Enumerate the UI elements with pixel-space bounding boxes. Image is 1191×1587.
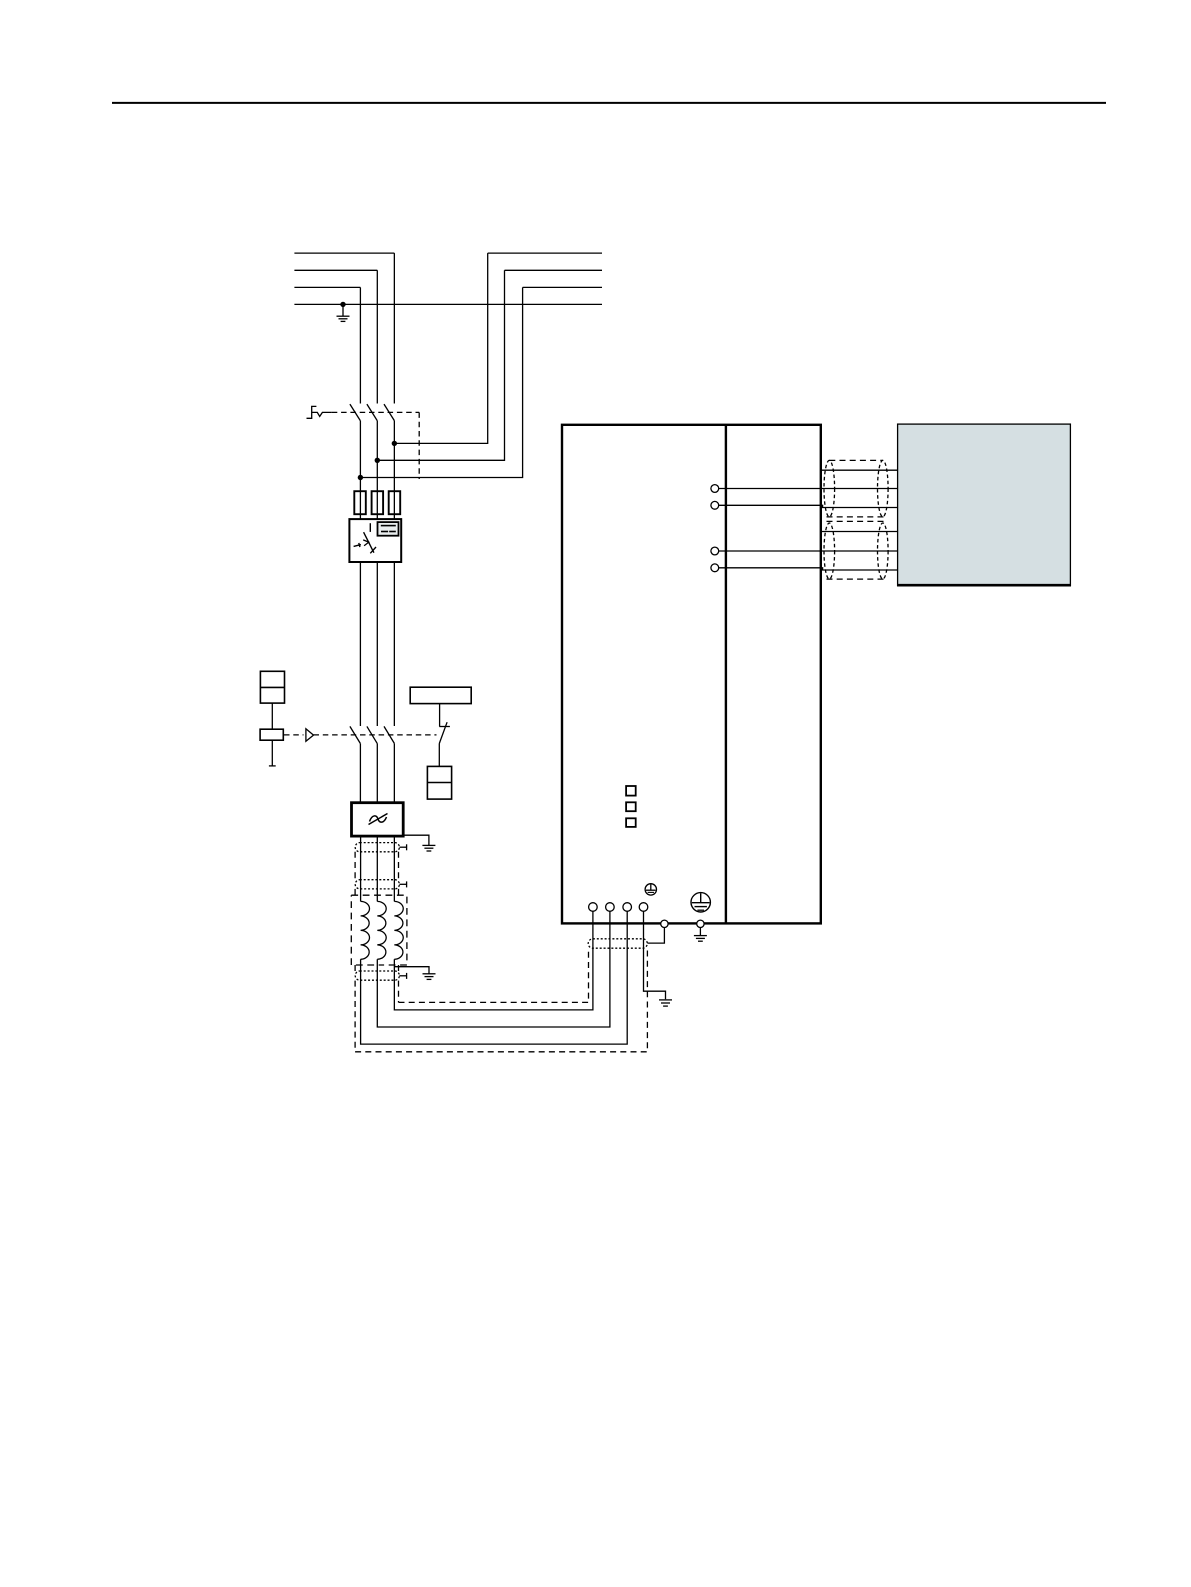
control device (right) lower box bbox=[427, 766, 451, 799]
supply phase line L2 bbox=[294, 269, 602, 271]
wire: drop from L1 to breaker pole 3 bbox=[393, 253, 395, 403]
cable shield outline (dashed, bottom run) bbox=[355, 948, 647, 1052]
disconnect switch Q2 pole 2 blade bbox=[367, 726, 377, 743]
control linkage (dashed) with arrow bbox=[284, 729, 437, 742]
wire: disconnect outputs down to EMC filter bbox=[360, 743, 394, 802]
contactor switch symbol bbox=[354, 523, 376, 553]
wire: input cable conductor V1 bbox=[377, 911, 610, 1027]
ground symbol (enclosure PE) bbox=[694, 936, 707, 942]
shield clamp 2 bbox=[355, 880, 406, 889]
node: tap dot pole 2 bbox=[375, 458, 380, 463]
wire: drop from L2 to breaker pole 2 bbox=[376, 270, 378, 403]
shield clamp 1 bbox=[355, 843, 406, 852]
ground symbol (supply PE) bbox=[337, 304, 350, 321]
wire: brake cable conductor 2 bbox=[719, 550, 898, 552]
shield clamp 3 bbox=[355, 971, 406, 980]
wire: motor cable conductor 1 bbox=[821, 469, 898, 471]
ground symbol (filter) bbox=[422, 845, 435, 851]
breaker linkage (dashed) bbox=[332, 412, 419, 479]
wire: brake cable conductor 1 bbox=[821, 531, 898, 533]
auxiliary NC contact bbox=[439, 704, 450, 767]
drive output terminal (brake 2) bbox=[711, 564, 719, 572]
control device (right) label box bbox=[410, 687, 471, 703]
fuse F2 bbox=[372, 491, 384, 514]
choke coil 2 bbox=[377, 901, 386, 959]
wire: input cable conductor U1 bbox=[394, 911, 593, 1010]
node: tap dot pole 1 bbox=[358, 475, 363, 480]
wire: brake cable conductor 3 bbox=[719, 568, 898, 570]
header rule bbox=[112, 102, 1106, 104]
drive input terminal PE bbox=[639, 903, 648, 912]
wire: choke ground tap bbox=[394, 967, 429, 974]
wire: filter outputs down through shields and choke bbox=[361, 836, 395, 901]
wire: breaker pole outputs down to fuses bbox=[360, 421, 394, 519]
drive input terminal V1 bbox=[606, 903, 615, 912]
wire: drop from L3 to breaker pole 1 bbox=[359, 287, 361, 403]
choke coil 1 bbox=[361, 901, 370, 959]
circuit breaker Q1 pole 3 blade bbox=[384, 404, 394, 421]
motor M box bbox=[897, 424, 1071, 585]
ground symbol (choke) bbox=[423, 974, 436, 980]
drive input terminal W1 bbox=[623, 903, 632, 912]
contactor K1 box bbox=[349, 519, 401, 562]
wire: PE conductor from terminal 4 to ground bbox=[644, 911, 666, 999]
ground symbol (input cable PE) bbox=[659, 1000, 672, 1006]
disconnect switch Q2 pole 1 blade bbox=[350, 726, 360, 743]
wire: tap to right bus L2 bbox=[377, 270, 504, 460]
drive output terminal (brake) bbox=[711, 547, 719, 555]
shield clamp (drive input) bbox=[588, 939, 647, 948]
control device (left) lower box bbox=[260, 703, 283, 766]
wire: tap to right bus L3 bbox=[360, 287, 522, 477]
wire: input cable conductor W1 bbox=[361, 911, 628, 1044]
wire: filter ground bbox=[403, 835, 429, 845]
supply phase line L1 bbox=[294, 252, 602, 254]
motor cable shield (dashed) bbox=[824, 460, 888, 517]
disconnect switch Q2 pole 3 blade bbox=[384, 726, 394, 743]
node: PE junction dot bbox=[340, 302, 345, 307]
brake cable shield (dashed) bbox=[824, 521, 888, 579]
choke coil 3 bbox=[394, 901, 403, 959]
wire: motor cable conductor 3 bbox=[719, 505, 898, 507]
node: tap dot pole 3 bbox=[392, 441, 397, 446]
drive cabinet box bbox=[562, 425, 821, 924]
terminal on enclosure bottom (shield bond) bbox=[647, 920, 668, 943]
circuit breaker Q1 pole 1 blade bbox=[350, 404, 360, 421]
drive input terminal U1 bbox=[589, 903, 598, 912]
drive output terminal V2 bbox=[711, 501, 719, 509]
choke L1 (dashed box) bbox=[351, 895, 407, 965]
circuit breaker Q1 pole 2 blade bbox=[367, 404, 377, 421]
supply phase line L3 bbox=[294, 286, 602, 288]
wire: motor cable conductor 2 bbox=[719, 488, 898, 490]
wire: contactor outputs down to disconnect switch bbox=[360, 562, 394, 726]
wire: tap to right bus L1 bbox=[394, 253, 487, 443]
fuse F1 bbox=[354, 491, 366, 514]
terminal on enclosure bottom (PE) bbox=[697, 920, 704, 936]
contactor nameplate bbox=[378, 522, 399, 536]
functional earth symbol (small circle) bbox=[645, 884, 656, 895]
control device (left) upper box bbox=[260, 671, 284, 703]
supply PE line bbox=[294, 303, 602, 305]
EMC filter box bbox=[352, 803, 404, 836]
fuse F3 bbox=[389, 491, 401, 514]
drive option squares bbox=[626, 786, 636, 827]
protective earth symbol (large circle) bbox=[691, 893, 710, 912]
cable shield outline (dashed, left run) bbox=[355, 852, 398, 1052]
breaker thermal trip release symbol bbox=[307, 406, 332, 418]
drive output terminal U2 bbox=[711, 485, 719, 493]
